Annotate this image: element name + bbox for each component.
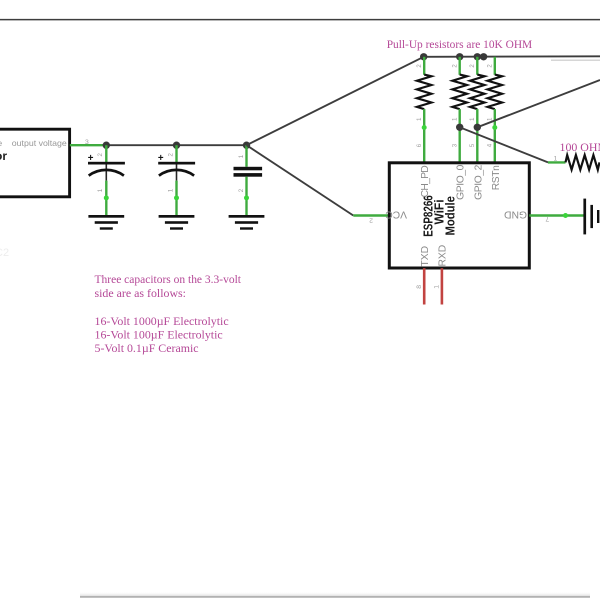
capacitor C3 (ceramic)	[234, 145, 263, 215]
ESP8266 module U1 box	[389, 163, 529, 268]
bottom card shadow	[80, 592, 590, 598]
svg-text:side are as follows:: side are as follows:	[95, 286, 186, 300]
svg-text:8: 8	[416, 285, 423, 289]
ground below C3	[229, 215, 265, 230]
wire: pull-up rail	[424, 55, 600, 58]
svg-text:Three capacitors on the 3.3-vo: Three capacitors on the 3.3-volt	[95, 272, 242, 286]
svg-text:3: 3	[85, 139, 89, 146]
svg-text:Pull-Up resistors are 10K OHM: Pull-Up resistors are 10K OHM	[387, 37, 533, 51]
svg-text:TXD: TXD	[420, 246, 431, 267]
pin number 7 (GND)	[545, 215, 549, 222]
U1 pin label TXD	[420, 246, 431, 267]
faint line right edge	[551, 59, 600, 61]
wire: node C up to pull-up rail	[247, 57, 424, 145]
svg-text:5-Volt 0.1µF Ceramic: 5-Volt 0.1µF Ceramic	[95, 341, 199, 355]
wire: GPIO_0 node to R5 (diagonal)	[460, 127, 548, 162]
svg-text:16-Volt 100µF Electrolytic: 16-Volt 100µF Electrolytic	[95, 327, 223, 341]
svg-text:output voltage: output voltage	[12, 138, 67, 148]
capacitor C2 (electrolytic)	[158, 145, 195, 215]
U1 pin label GND	[504, 209, 527, 220]
svg-text:GPIO_0: GPIO_0	[456, 164, 467, 199]
note: capacitor list	[95, 272, 242, 355]
junction node B	[173, 142, 180, 149]
svg-text:100 OHM: 100 OHM	[560, 140, 600, 154]
wire: node C down to VCC pin	[247, 145, 354, 215]
junction node D on rail	[420, 53, 427, 60]
wire: main 3.3V rail node A to node C	[106, 144, 246, 146]
U1 pin label RXD	[438, 245, 449, 267]
junction node A	[103, 142, 110, 149]
resistor R4 (10K pull-up)	[486, 57, 502, 109]
wire: regulator output to node A (green)	[70, 144, 107, 146]
ground below C2	[159, 215, 195, 230]
pin number 3 (regulator output)	[85, 139, 89, 146]
pin number 8 (TXD)	[416, 285, 423, 289]
note: pull-up resistors	[387, 37, 533, 51]
regulator U2 pin name: output voltage	[0, 138, 67, 148]
wire: RXD (red)	[441, 268, 444, 304]
svg-text:GPIO_2: GPIO_2	[473, 164, 484, 199]
regulator U2 part name (truncated "...or")	[0, 149, 7, 163]
svg-text:CH_PD: CH_PD	[420, 166, 431, 198]
svg-text:GND: GND	[504, 209, 527, 220]
wire: VCC pin stub (green)	[353, 214, 389, 216]
svg-text:7: 7	[545, 215, 549, 222]
U1 part name ESP8266 WiFi Module	[421, 195, 458, 237]
svg-text:C2: C2	[0, 247, 9, 259]
wire: GPIO_2 node off right edge (diagonal)	[477, 80, 600, 127]
junction node G on rail	[480, 53, 487, 60]
U1 pin label GPIO_0	[456, 164, 467, 199]
svg-text:VCC: VCC	[385, 209, 407, 220]
ground symbol right	[583, 199, 599, 235]
svg-text:e: e	[0, 138, 3, 148]
capacitor C1 (electrolytic)	[88, 145, 125, 215]
pin number 1 (RXD)	[434, 285, 441, 289]
top frame line	[0, 19, 600, 21]
junction node H (GPIO_0)	[456, 124, 463, 131]
svg-text:1: 1	[434, 285, 441, 289]
faint truncated text left edge	[0, 247, 9, 259]
wire: TXD (red)	[423, 268, 426, 304]
note: 100 OHM	[560, 140, 600, 154]
resistor R3 (10K pull-up)	[469, 57, 485, 109]
junction node F on rail	[474, 53, 481, 60]
svg-text:1: 1	[554, 155, 558, 162]
wire: R5 stub (green)	[548, 161, 566, 163]
svg-text:or: or	[0, 149, 7, 163]
svg-text:16-Volt 1000µF Electrolytic: 16-Volt 1000µF Electrolytic	[95, 314, 229, 328]
voltage regulator U2 box	[0, 129, 70, 197]
junction node C	[243, 142, 250, 149]
junction node E on rail	[456, 53, 463, 60]
resistor R5 (100 OHM)	[566, 155, 600, 170]
junction node I (GPIO_2)	[474, 124, 481, 131]
U1 pin label CH_PD	[420, 166, 431, 198]
U1 pin label GPIO_2	[473, 164, 484, 199]
U1 pin label VCC	[385, 209, 407, 220]
svg-text:RXD: RXD	[438, 245, 449, 267]
resistor R2 (10K pull-up)	[451, 57, 467, 109]
wire below R1 (green)	[416, 109, 427, 163]
svg-text:RSTn: RSTn	[491, 165, 502, 190]
svg-text:2: 2	[369, 216, 373, 223]
U1 pin label RSTn	[491, 165, 502, 190]
resistor R1 (10K pull-up)	[416, 57, 432, 109]
wire below R4 (green)	[486, 109, 497, 163]
wire: GND pin to ground (green)	[529, 213, 583, 218]
pin number 1 (R5)	[554, 155, 558, 162]
ground below C1	[88, 215, 124, 230]
wire below R2 (green)	[451, 109, 459, 163]
pin number 2 (VCC)	[369, 216, 373, 223]
wire below R3 (green)	[469, 109, 477, 163]
svg-text:Module: Module	[443, 196, 458, 236]
